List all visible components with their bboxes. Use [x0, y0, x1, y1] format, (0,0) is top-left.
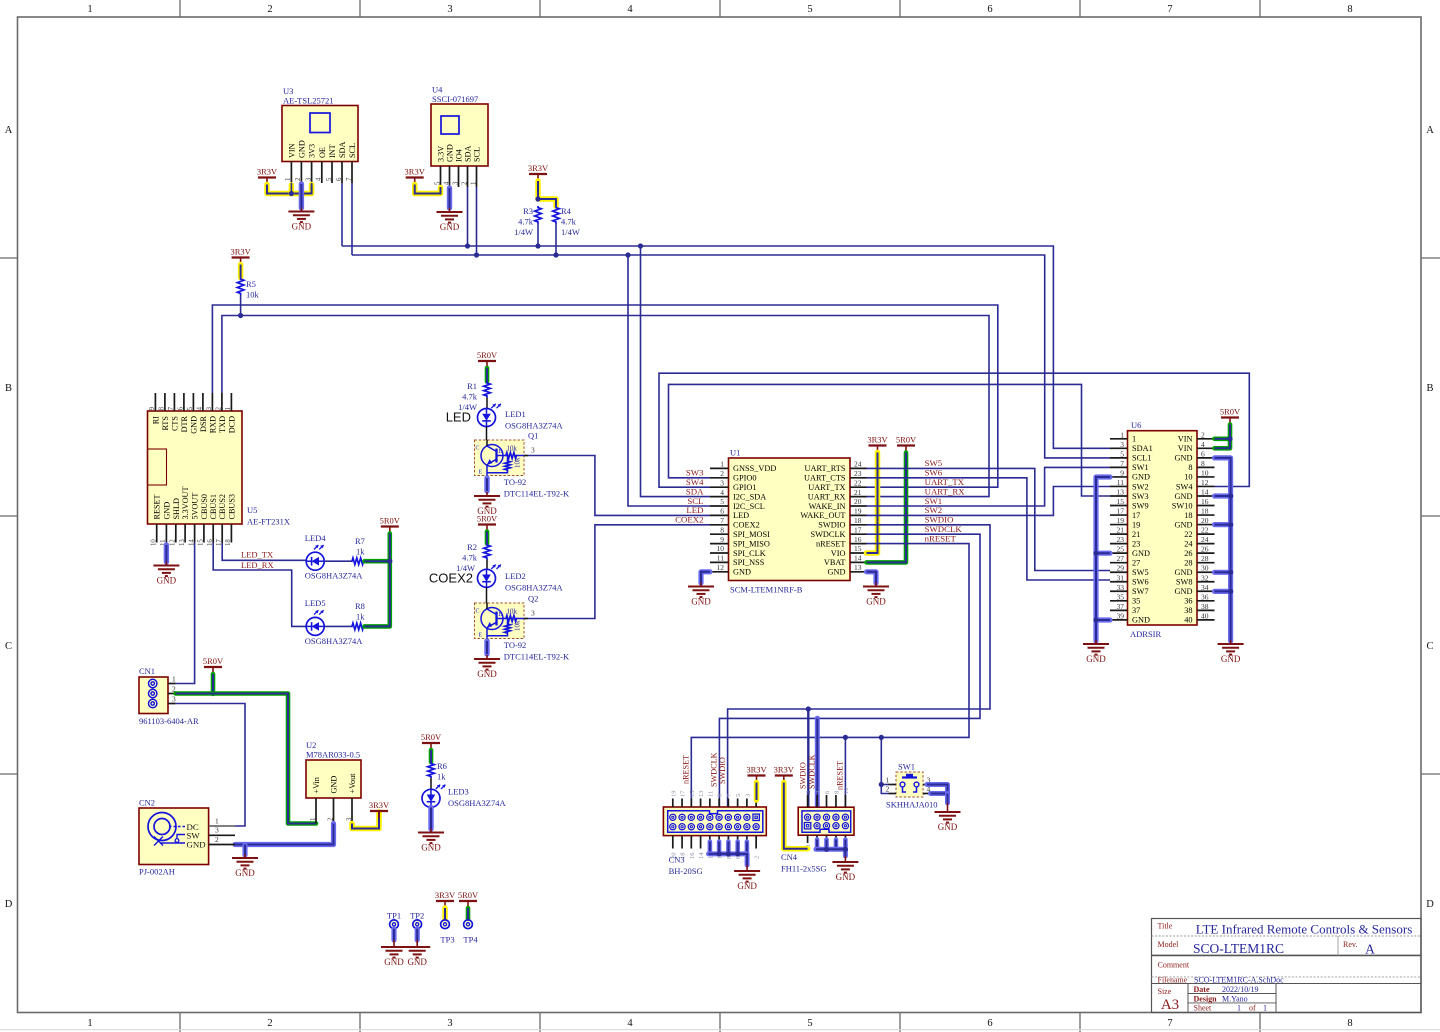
svg-text:CN1: CN1	[139, 666, 155, 676]
connector CN1 961103-6404-AR	[139, 666, 199, 726]
svg-text:SCL1: SCL1	[1132, 454, 1151, 463]
power 5R0V at R6	[421, 732, 442, 762]
svg-text:3: 3	[452, 181, 459, 185]
svg-text:3R3V: 3R3V	[435, 890, 456, 900]
svg-text:961103-6404-AR: 961103-6404-AR	[139, 716, 199, 726]
svg-text:SDA: SDA	[338, 142, 347, 158]
svg-text:2022/10/19: 2022/10/19	[1222, 985, 1258, 994]
test point TP3	[435, 890, 456, 945]
svg-text:3: 3	[346, 817, 353, 821]
LED LED5 OSG8HA3Z74A	[305, 598, 363, 646]
svg-text:GND: GND	[691, 597, 711, 607]
svg-text:9: 9	[149, 406, 156, 410]
svg-text:12: 12	[1201, 478, 1209, 487]
svg-text:GND: GND	[733, 568, 751, 577]
svg-text:34: 34	[1201, 583, 1209, 592]
svg-text:3: 3	[305, 177, 312, 181]
svg-text:SW5: SW5	[1132, 568, 1149, 577]
svg-text:R3: R3	[523, 206, 533, 216]
svg-text:5R0V: 5R0V	[1220, 406, 1241, 416]
svg-text:15: 15	[198, 539, 205, 546]
svg-text:R2: R2	[467, 542, 477, 552]
svg-text:SW6: SW6	[1132, 578, 1149, 587]
svg-text:GND: GND	[292, 222, 312, 232]
svg-text:8: 8	[1201, 459, 1205, 468]
svg-text:7: 7	[1120, 459, 1124, 468]
svg-text:VIO: VIO	[831, 549, 846, 558]
power 5R0V at CN1	[203, 656, 224, 696]
svg-text:5R0V: 5R0V	[477, 350, 498, 360]
regulator U2 M78AR033-0.5	[306, 740, 361, 824]
svg-text:2: 2	[295, 177, 302, 181]
svg-text:SW2: SW2	[1132, 482, 1149, 491]
ground at SW1	[927, 785, 961, 833]
ground at U3 pin2	[288, 184, 314, 232]
svg-text:GND: GND	[330, 776, 339, 794]
wire UART_TX bus from U5 RXD	[212, 305, 997, 487]
svg-text:6: 6	[987, 4, 992, 15]
svg-text:CTS: CTS	[170, 416, 179, 431]
svg-text:INT: INT	[328, 144, 337, 158]
wire U4 SCL down	[476, 187, 478, 255]
svg-text:25: 25	[1117, 545, 1125, 554]
svg-text:GND: GND	[421, 843, 441, 853]
svg-text:22: 22	[1201, 526, 1209, 535]
svg-text:21: 21	[1132, 530, 1140, 539]
svg-text:4: 4	[443, 181, 450, 185]
svg-text:2: 2	[461, 181, 468, 185]
svg-text:5VOUT: 5VOUT	[191, 493, 200, 520]
svg-text:Date: Date	[1194, 985, 1210, 994]
svg-text:15: 15	[1117, 497, 1125, 506]
svg-text:21: 21	[854, 488, 862, 497]
svg-text:WAKE_IN: WAKE_IN	[809, 502, 846, 511]
svg-text:5R0V: 5R0V	[896, 434, 917, 444]
svg-text:LED: LED	[733, 511, 749, 520]
svg-text:3: 3	[1120, 440, 1124, 449]
svg-text:5: 5	[326, 177, 333, 181]
svg-text:Filename: Filename	[1158, 975, 1188, 984]
svg-text:11: 11	[707, 791, 714, 797]
switch SW1 SKHHAJA010	[886, 762, 938, 810]
wire UART_RX bus from U5 TXD	[222, 316, 989, 497]
svg-text:LED5: LED5	[305, 598, 326, 608]
svg-text:12: 12	[717, 563, 725, 572]
wire SCL bus	[352, 252, 1110, 458]
svg-text:1: 1	[172, 675, 176, 684]
svg-text:GND: GND	[187, 839, 206, 849]
svg-text:GND: GND	[1175, 587, 1193, 596]
svg-text:4: 4	[627, 1018, 633, 1029]
svg-text:SW10: SW10	[1172, 501, 1193, 510]
power 3R3V at CN3 pin1	[746, 764, 767, 800]
svg-text:1k: 1k	[356, 547, 365, 557]
wire Q2 collector to U1 COEX2 pin	[528, 525, 710, 619]
svg-text:5: 5	[1120, 449, 1124, 458]
svg-text:10: 10	[843, 788, 850, 795]
svg-text:1: 1	[225, 407, 232, 410]
svg-text:U6: U6	[1131, 420, 1141, 430]
svg-text:37: 37	[1117, 602, 1125, 611]
svg-text:1: 1	[285, 178, 292, 181]
transistor Q1 DTC114EL-T92-K	[475, 431, 570, 499]
svg-text:5: 5	[720, 497, 724, 506]
svg-text:Design: Design	[1194, 994, 1218, 1003]
svg-text:GND: GND	[157, 576, 177, 586]
svg-text:GND: GND	[407, 957, 427, 967]
svg-text:17: 17	[1117, 507, 1125, 516]
svg-text:GNSS_VDD: GNSS_VDD	[733, 464, 776, 473]
ground bus at U6 right	[1215, 458, 1244, 664]
svg-text:2: 2	[886, 784, 890, 793]
svg-text:10k: 10k	[507, 445, 518, 453]
svg-text:U3: U3	[283, 86, 293, 96]
svg-text:6: 6	[1201, 449, 1205, 458]
svg-text:C: C	[476, 609, 480, 615]
IC U1 SCM-LTEM1NRF-B	[710, 448, 867, 595]
wire SW5 net U1 to U6	[867, 468, 1111, 570]
svg-text:COEX2: COEX2	[429, 571, 473, 586]
wire SCL to U1 pin5	[628, 255, 710, 506]
svg-text:E: E	[479, 470, 483, 476]
svg-text:LED_TX: LED_TX	[241, 549, 273, 559]
svg-text:D: D	[5, 899, 13, 910]
svg-text:24: 24	[1184, 539, 1193, 548]
svg-text:40: 40	[1184, 616, 1192, 625]
svg-text:LTE Infrared Remote Controls &: LTE Infrared Remote Controls & Sensors	[1196, 922, 1413, 937]
wire nRESET net	[691, 544, 969, 807]
svg-text:1/4W: 1/4W	[514, 227, 533, 237]
svg-text:SPI_NSS: SPI_NSS	[733, 558, 765, 567]
svg-text:GND: GND	[836, 872, 856, 882]
svg-text:GND: GND	[1175, 492, 1193, 501]
wire U5 5VOUT to CN1 pin1	[176, 543, 195, 684]
net labels U1 right	[925, 458, 966, 543]
svg-text:16: 16	[689, 852, 696, 859]
svg-text:GND: GND	[938, 822, 958, 832]
svg-text:DTC114EL-T92-K: DTC114EL-T92-K	[504, 489, 570, 499]
svg-text:M78AR033-0.5: M78AR033-0.5	[306, 750, 360, 760]
IC U6 ADRSIR	[1110, 420, 1215, 639]
svg-text:2: 2	[215, 835, 219, 844]
svg-text:17: 17	[1132, 511, 1140, 520]
svg-text:1: 1	[1263, 1004, 1267, 1013]
svg-text:Title: Title	[1158, 922, 1173, 931]
power 5R0V for LED4 LED5	[365, 515, 401, 626]
svg-text:SWDIO: SWDIO	[718, 757, 727, 784]
svg-text:GND: GND	[384, 957, 404, 967]
svg-text:5R0V: 5R0V	[421, 732, 442, 742]
svg-text:GND: GND	[1175, 454, 1193, 463]
svg-text:SDA1: SDA1	[1132, 444, 1153, 453]
power 5R0V at R2	[477, 513, 498, 543]
svg-text:U1: U1	[730, 448, 740, 458]
svg-text:CBUS2: CBUS2	[218, 494, 227, 519]
svg-text:6: 6	[336, 177, 343, 181]
svg-text:15: 15	[689, 791, 696, 798]
ground at Q2 emitter	[474, 641, 500, 679]
svg-text:GND: GND	[162, 502, 171, 520]
svg-text:OE: OE	[318, 147, 327, 158]
svg-text:GND: GND	[1132, 616, 1150, 625]
svg-text:23: 23	[1132, 539, 1140, 548]
LED LED4 OSG8HA3Z74A	[305, 533, 363, 581]
svg-text:2: 2	[805, 791, 812, 794]
wire SDA to U1 pin4	[641, 246, 711, 497]
svg-text:Q1: Q1	[528, 431, 538, 441]
svg-text:FH11-2x5SG: FH11-2x5SG	[781, 864, 827, 874]
svg-text:3V3: 3V3	[308, 144, 317, 158]
svg-text:1: 1	[1237, 1004, 1241, 1013]
transistor Q2 DTC114EL-T92-K	[475, 594, 570, 662]
svg-text:R7: R7	[355, 536, 365, 546]
svg-text:5: 5	[807, 1018, 812, 1029]
IC U3 AE-TSL25721	[282, 86, 358, 183]
wire SW3 net U1 to U6	[669, 384, 1111, 496]
IC U5 AE-FT231X	[148, 393, 290, 546]
svg-text:1: 1	[87, 4, 92, 15]
svg-text:3: 3	[447, 4, 452, 15]
svg-text:1: 1	[886, 775, 890, 784]
svg-text:Q2: Q2	[528, 594, 538, 604]
svg-text:Size: Size	[1158, 987, 1172, 996]
resistor R5 10k	[237, 278, 259, 319]
resistor R2 4.7k	[456, 542, 490, 573]
svg-text:Sheet: Sheet	[1194, 1004, 1213, 1013]
ground at U5 pin11	[153, 545, 179, 586]
svg-text:1: 1	[1120, 430, 1124, 439]
svg-text:I2C_SCL: I2C_SCL	[733, 502, 765, 511]
wire nRESET branch to CN4	[844, 737, 846, 807]
svg-text:R6: R6	[437, 761, 447, 771]
svg-text:35: 35	[1132, 597, 1140, 606]
svg-text:C: C	[5, 641, 12, 652]
svg-text:2: 2	[267, 1018, 272, 1029]
connector CN4 FH11-2x5SG	[781, 788, 854, 874]
svg-text:A: A	[1365, 942, 1375, 957]
svg-text:Comment: Comment	[1158, 961, 1190, 970]
svg-text:5R0V: 5R0V	[203, 656, 224, 666]
svg-text:LED4: LED4	[305, 533, 327, 543]
power 3R3V at U2 Vout	[352, 800, 390, 829]
svg-text:of: of	[1249, 1004, 1256, 1013]
svg-text:23: 23	[854, 469, 862, 478]
svg-text:16: 16	[854, 535, 862, 544]
resistor R1 4.7k	[458, 381, 490, 412]
svg-text:TP4: TP4	[463, 935, 478, 945]
svg-text:17: 17	[854, 525, 862, 534]
svg-text:SKHHAJA010: SKHHAJA010	[886, 800, 937, 810]
svg-text:7: 7	[1167, 1018, 1172, 1029]
resistor R8 1k	[351, 601, 365, 630]
svg-text:R4: R4	[561, 206, 572, 216]
wire LED_TX net	[222, 543, 306, 561]
svg-text:12: 12	[170, 539, 177, 546]
svg-text:SW8: SW8	[1176, 578, 1193, 587]
svg-text:3: 3	[215, 826, 219, 835]
svg-text:GPIO1: GPIO1	[733, 483, 757, 492]
svg-text:1/4W: 1/4W	[561, 227, 580, 237]
svg-text:LED3: LED3	[448, 787, 469, 797]
svg-text:18: 18	[854, 516, 862, 525]
svg-text:RI: RI	[151, 416, 160, 424]
wire SW1 net U1 to U6	[867, 467, 1111, 506]
LED LED1 OSG8HA3Z74A	[446, 404, 564, 440]
svg-text:3R3V: 3R3V	[230, 246, 251, 256]
svg-text:13: 13	[854, 563, 862, 572]
svg-text:SW1: SW1	[1132, 463, 1149, 472]
power 3R3V at CN4 pin1	[774, 764, 808, 848]
IC U4 SSCI-071697	[431, 85, 488, 188]
svg-text:GND: GND	[1175, 520, 1193, 529]
wire SWDIO net	[728, 525, 990, 807]
connector CN2 PJ-002AH	[139, 798, 235, 877]
svg-text:2: 2	[327, 817, 334, 821]
svg-text:17: 17	[680, 790, 687, 797]
svg-text:9: 9	[1120, 468, 1124, 477]
svg-text:BH-20SG: BH-20SG	[669, 866, 703, 876]
svg-text:TXD: TXD	[218, 416, 227, 433]
power 5R0V at R1	[477, 350, 498, 382]
svg-text:RXD: RXD	[208, 416, 217, 433]
svg-text:LED2: LED2	[505, 571, 526, 581]
svg-text:TP1: TP1	[387, 911, 401, 921]
wire SW2 net U1 to U6	[867, 487, 1111, 516]
resistor R7 1k	[351, 536, 365, 565]
svg-text:36: 36	[1201, 592, 1209, 601]
wire SW6 net U1 to U6	[867, 478, 1111, 580]
svg-text:19: 19	[1117, 516, 1125, 525]
svg-text:GND: GND	[1175, 568, 1193, 577]
svg-text:UART_RX: UART_RX	[808, 492, 846, 501]
svg-text:GND: GND	[737, 881, 757, 891]
svg-text:C: C	[1426, 641, 1433, 652]
svg-text:11: 11	[1117, 478, 1124, 487]
svg-text:20: 20	[854, 497, 862, 506]
svg-text:A: A	[5, 125, 13, 136]
svg-text:13: 13	[179, 539, 186, 546]
LED LED2 OSG8HA3Z74A	[429, 565, 564, 603]
svg-text:6: 6	[178, 406, 185, 410]
svg-text:B: B	[499, 612, 503, 618]
svg-text:CN4: CN4	[781, 852, 798, 862]
test point TP1	[381, 911, 407, 968]
wire U4 SDA down	[467, 187, 469, 246]
svg-text:GND: GND	[1132, 549, 1150, 558]
svg-text:22: 22	[854, 478, 862, 487]
svg-text:M.Yano: M.Yano	[1222, 994, 1248, 1003]
svg-text:4.7k: 4.7k	[462, 553, 478, 563]
svg-text:10: 10	[1201, 468, 1209, 477]
svg-text:3R3V: 3R3V	[528, 163, 549, 173]
svg-text:4.7k: 4.7k	[518, 217, 534, 227]
svg-text:I2C_SDA: I2C_SDA	[733, 492, 766, 501]
svg-text:GND: GND	[477, 669, 497, 679]
svg-text:RESET: RESET	[153, 494, 162, 519]
ground at U4 pin4	[437, 188, 463, 232]
svg-text:33: 33	[1117, 583, 1125, 592]
svg-text:4: 4	[1201, 440, 1205, 449]
svg-text:SW4: SW4	[1176, 482, 1193, 491]
svg-text:E: E	[479, 633, 483, 639]
svg-text:1k: 1k	[356, 612, 365, 622]
svg-text:6: 6	[720, 507, 724, 516]
svg-text:14: 14	[1201, 487, 1209, 496]
svg-text:8: 8	[1347, 1018, 1352, 1029]
svg-text:9: 9	[720, 535, 724, 544]
svg-text:SWDCLK: SWDCLK	[807, 754, 816, 789]
power 3R3V at R3 R4	[528, 163, 556, 206]
svg-text:SWDCLK: SWDCLK	[810, 530, 845, 539]
wire SWDIO branch to CN4	[807, 709, 809, 807]
svg-text:WAKE_OUT: WAKE_OUT	[800, 511, 845, 520]
svg-text:6: 6	[987, 1018, 992, 1029]
svg-text:D: D	[1426, 899, 1434, 910]
svg-text:10: 10	[717, 544, 725, 553]
rotated net labels at CN4	[798, 754, 844, 790]
svg-text:26: 26	[1184, 549, 1192, 558]
svg-text:+Vin: +Vin	[312, 777, 321, 793]
svg-text:27: 27	[1117, 554, 1125, 563]
svg-text:28: 28	[1184, 558, 1192, 567]
svg-text:ADRSIR: ADRSIR	[1130, 629, 1162, 639]
svg-text:SHLD: SHLD	[172, 498, 181, 519]
svg-text:13: 13	[1117, 487, 1125, 496]
svg-text:7: 7	[720, 516, 724, 525]
svg-text:8: 8	[1347, 4, 1352, 15]
resistor R4 4.7k	[553, 206, 580, 258]
svg-text:1: 1	[720, 460, 724, 469]
svg-text:3.3V: 3.3V	[437, 146, 446, 162]
svg-text:16: 16	[1201, 497, 1209, 506]
svg-text:R1: R1	[467, 381, 477, 391]
svg-text:11: 11	[717, 554, 724, 563]
svg-text:SCM-LTEM1NRF-B: SCM-LTEM1NRF-B	[730, 585, 803, 595]
svg-text:10k: 10k	[514, 620, 522, 631]
svg-text:3.3VOUT: 3.3VOUT	[181, 487, 190, 520]
svg-text:35: 35	[1117, 592, 1125, 601]
svg-text:4: 4	[720, 488, 724, 497]
svg-text:CBUS3: CBUS3	[227, 494, 236, 519]
svg-text:1: 1	[1132, 435, 1136, 444]
svg-text:9: 9	[717, 794, 724, 797]
svg-text:5: 5	[735, 794, 742, 797]
svg-text:U2: U2	[306, 740, 316, 750]
svg-text:U5: U5	[247, 505, 257, 515]
ground at U1 pin13	[863, 572, 889, 607]
ground at U1 pin12	[688, 572, 714, 607]
svg-text:40: 40	[1201, 611, 1209, 620]
svg-text:10k: 10k	[246, 290, 260, 300]
svg-text:8: 8	[720, 525, 724, 534]
svg-text:SW9: SW9	[1132, 501, 1149, 510]
svg-text:1: 1	[87, 1018, 92, 1029]
svg-text:GPIO0: GPIO0	[733, 474, 757, 483]
svg-text:R8: R8	[355, 601, 365, 611]
svg-text:3: 3	[531, 445, 535, 454]
svg-text:SCL: SCL	[473, 147, 482, 162]
svg-text:UART_CTS: UART_CTS	[804, 474, 846, 483]
svg-text:SCL: SCL	[348, 143, 357, 158]
svg-text:19: 19	[1132, 520, 1140, 529]
svg-text:OSG8HA3Z74A: OSG8HA3Z74A	[505, 583, 563, 593]
svg-text:CBUS1: CBUS1	[209, 494, 218, 519]
svg-text:nRESET: nRESET	[681, 755, 690, 784]
svg-text:5: 5	[187, 406, 194, 410]
ground at Q1 emitter	[474, 478, 500, 516]
ground bus at U6 left	[1083, 477, 1110, 664]
svg-text:GND: GND	[297, 140, 306, 158]
